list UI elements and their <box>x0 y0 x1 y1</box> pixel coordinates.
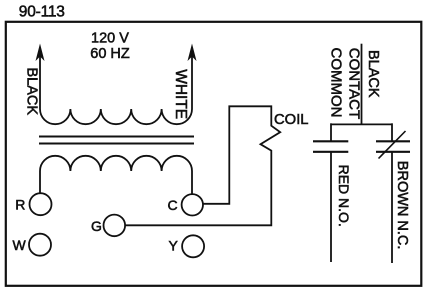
contact RED N.O. <box>313 123 348 262</box>
transformer T1 secondary winding <box>40 156 192 194</box>
transformer T1 core <box>39 137 194 144</box>
wire WHITE lead with arrow <box>188 44 197 110</box>
relay coil wire from C through coil to G <box>125 106 280 225</box>
svg-text:R: R <box>15 197 25 213</box>
wire contact common vertical <box>361 44 363 125</box>
svg-text:COMMON: COMMON <box>328 48 345 118</box>
terminal W <box>13 234 52 256</box>
terminal R <box>15 193 51 215</box>
wire junction tee <box>331 123 392 125</box>
contact BROWN N.C. <box>376 123 410 263</box>
terminal G <box>91 215 125 237</box>
svg-text:COIL: COIL <box>274 112 309 128</box>
svg-text:RED N.O.: RED N.O. <box>336 165 352 227</box>
svg-text:C: C <box>168 197 178 213</box>
terminal C <box>168 194 204 215</box>
svg-text:G: G <box>91 218 102 234</box>
svg-text:BROWN N.C.: BROWN N.C. <box>394 161 410 250</box>
label 120 V 60 HZ <box>90 30 130 62</box>
transformer T1 primary winding <box>40 109 192 124</box>
svg-text:W: W <box>13 237 27 253</box>
svg-text:BLACK: BLACK <box>23 68 39 116</box>
terminal Y <box>169 235 205 257</box>
svg-text:WHITE: WHITE <box>172 69 189 119</box>
svg-text:120 V: 120 V <box>91 30 129 46</box>
svg-text:60 HZ: 60 HZ <box>90 46 130 62</box>
wire BLACK lead with arrow <box>36 44 45 110</box>
svg-text:BLACK: BLACK <box>365 50 381 98</box>
svg-text:Y: Y <box>169 238 179 254</box>
svg-text:CONTACT: CONTACT <box>345 48 362 119</box>
svg-text:90-113: 90-113 <box>19 3 65 20</box>
